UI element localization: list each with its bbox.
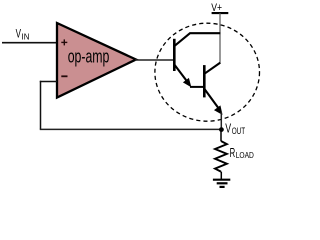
- wire Q1 emitter to Q2 base: [190, 86, 204, 88]
- wire op-amp output: [135, 59, 174, 61]
- wire Q2 emitter to VOUT node: [220, 112, 222, 130]
- svg-text:IN: IN: [22, 31, 30, 41]
- transistor Q2 emitter arrowhead: [215, 106, 222, 114]
- op-amp U1: [57, 23, 136, 98]
- transistor Q1 base bar: [173, 39, 176, 71]
- power V+ rail bar: [212, 12, 229, 14]
- op-amp minus input symbol: [61, 75, 67, 77]
- wire feedback horizontal: [40, 128, 222, 130]
- dashed circle: [155, 23, 260, 121]
- svg-text:LOAD: LOAD: [236, 151, 254, 160]
- svg-text:R: R: [230, 146, 236, 160]
- svg-text:OUT: OUT: [232, 126, 246, 136]
- op-amp plus input symbol: [61, 39, 67, 45]
- wire VIN input: [2, 42, 57, 44]
- svg-text:op-amp: op-amp: [68, 45, 110, 66]
- transistor Q1 collector: [175, 33, 221, 46]
- transistor Q1 emitter arrowhead: [184, 79, 191, 87]
- wire V+ vertical drop: [219, 13, 221, 63]
- resistor RLOAD zigzag: [215, 141, 227, 172]
- wire minus input: [40, 81, 57, 83]
- transistor Q2 base bar: [203, 65, 206, 97]
- wire feedback vertical: [40, 81, 42, 130]
- wire resistor to ground: [220, 172, 222, 180]
- transistor Q2 emitter: [205, 89, 219, 108]
- node VOUT junction dot: [219, 127, 224, 132]
- transistor Q2 collector: [205, 63, 221, 74]
- transistor Q1 emitter: [175, 65, 189, 83]
- wire VOUT node to resistor: [220, 130, 222, 141]
- ground: [213, 180, 230, 187]
- svg-text:V: V: [225, 120, 231, 135]
